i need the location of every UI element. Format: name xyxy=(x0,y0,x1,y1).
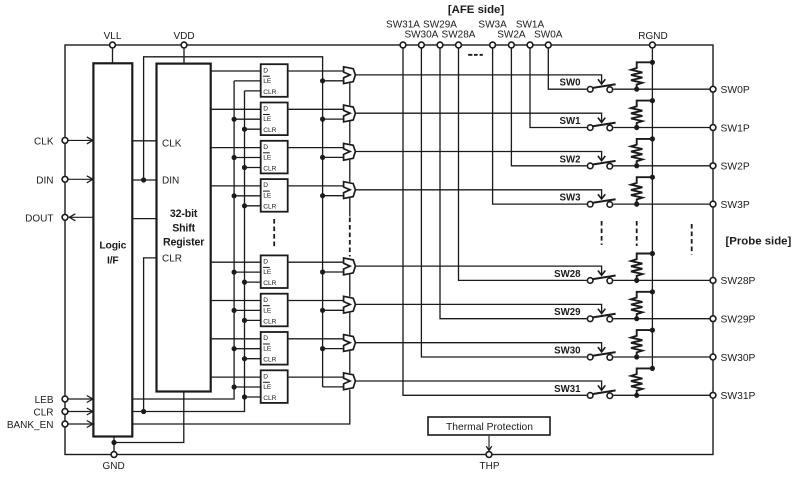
svg-text:SW28A: SW28A xyxy=(442,30,476,41)
resistor SW29 termination xyxy=(631,292,652,319)
svg-text:SW3: SW3 xyxy=(560,193,582,204)
svg-text:VDD: VDD xyxy=(173,31,194,42)
pin SW0P xyxy=(710,85,750,96)
pin VLL xyxy=(104,31,122,48)
junction DIN branch xyxy=(141,177,146,182)
wire latch SW2 output to level shifter xyxy=(289,147,344,149)
wire Shift Register data out to Logic I/F (DOUT) xyxy=(132,218,156,220)
pin SW28A xyxy=(442,30,476,48)
pin THP xyxy=(480,452,500,472)
pin RGND xyxy=(638,31,667,48)
wire shift register output to latch SW1 D input xyxy=(211,108,261,110)
svg-text:D: D xyxy=(263,373,268,380)
wire SW2A pin drop to switch xyxy=(511,48,586,166)
junction resistor bottom SW1 xyxy=(634,125,639,130)
svg-text:LE: LE xyxy=(263,307,272,314)
wire shift register output to latch SW3 D input xyxy=(211,185,261,187)
wire level-shifter chain SW3 to SW28 (continuation) xyxy=(349,198,351,257)
wire latch SW28 output to level shifter xyxy=(289,261,344,263)
junction resistor bottom SW0 xyxy=(634,87,639,92)
pin BANK_EN xyxy=(7,420,68,431)
wire LE bus to latch SW29 xyxy=(232,308,261,313)
junction resistor SW30 to RGND rail xyxy=(650,328,655,333)
svg-text:DIN: DIN xyxy=(162,176,179,187)
svg-text:LEB: LEB xyxy=(35,395,54,406)
wire CLR bus to latch SW1 xyxy=(242,127,261,132)
junction resistor SW2 to RGND rail xyxy=(650,136,655,141)
wire CLR bus to latch SW28 xyxy=(242,280,261,285)
resistor SW2 termination xyxy=(631,139,652,166)
svg-text:DIN: DIN xyxy=(36,176,53,187)
wire enable bus to level shifter SW2 xyxy=(320,155,344,160)
svg-text:Shift: Shift xyxy=(172,223,195,235)
resistor SW3 termination xyxy=(631,177,652,204)
wire control SW30 to switch with arrow xyxy=(355,343,605,352)
wire switch SW1 to SW1P pin xyxy=(613,127,713,129)
resistor SW30 termination xyxy=(631,330,652,357)
junction resistor bottom SW3 xyxy=(634,202,639,207)
wire level-shifter chain SW30 to SW31 xyxy=(349,351,351,373)
pin SW3A xyxy=(478,20,507,48)
junction resistor bottom SW29 xyxy=(634,316,639,321)
svg-text:SW30A: SW30A xyxy=(404,30,438,41)
wire CLR bus to latch SW0 xyxy=(245,90,261,92)
svg-text:CLR: CLR xyxy=(263,395,276,402)
bus level-shifter enable vertical xyxy=(322,81,324,387)
svg-text:CLR: CLR xyxy=(263,357,276,364)
wire CLR bus to latch SW3 xyxy=(242,203,261,208)
svg-text:SW0P: SW0P xyxy=(721,85,750,96)
svg-text:SW30P: SW30P xyxy=(721,353,756,364)
pin SW3P xyxy=(710,200,750,211)
latch D/LE/CLR for SW29 xyxy=(261,294,288,327)
chip package boundary xyxy=(65,45,713,455)
pin SW2P xyxy=(710,162,750,173)
pin SW29P xyxy=(710,315,755,326)
wire CLK pin to Logic I/F with arrow xyxy=(68,137,93,144)
svg-text:D: D xyxy=(263,67,268,74)
svg-text:CLR: CLR xyxy=(263,280,276,287)
svg-text:CLR: CLR xyxy=(263,127,276,134)
svg-text:BANK_EN: BANK_EN xyxy=(7,420,54,431)
wire enable bus to level shifter SW31 xyxy=(323,386,344,388)
wire LEB pin to Logic I/F with arrow xyxy=(68,396,93,403)
svg-text:CLR: CLR xyxy=(263,204,276,211)
svg-text:I/F: I/F xyxy=(107,255,119,266)
svg-text:THP: THP xyxy=(480,461,500,472)
svg-text:LE: LE xyxy=(263,78,272,85)
ellipsis between SW28A and SW3A pins xyxy=(468,54,483,56)
svg-text:[Probe side]: [Probe side] xyxy=(725,235,791,247)
wire enable bus to level shifter SW3 xyxy=(320,193,344,198)
wire level-shifter chain SW0 to SW1 xyxy=(349,83,351,105)
wire LE bus to latch SW2 xyxy=(232,155,261,160)
svg-text:Register: Register xyxy=(163,237,204,249)
wire enable bus to level shifter SW28 xyxy=(320,269,344,274)
level shifter SW28 xyxy=(344,258,356,275)
wire switch SW31 to SW31P pin xyxy=(613,394,713,396)
switch SW30 xyxy=(587,352,615,360)
svg-text:LE: LE xyxy=(263,116,272,123)
wire control SW0 to switch with arrow xyxy=(355,75,605,84)
wire LE bus to latch SW1 xyxy=(232,117,261,122)
svg-text:LE: LE xyxy=(263,193,272,200)
resistor SW28 termination xyxy=(631,254,652,281)
pin SW1P xyxy=(710,123,750,134)
svg-text:SW31: SW31 xyxy=(554,384,581,395)
level shifter SW3 xyxy=(344,182,356,199)
wire SW29A pin drop to switch xyxy=(440,48,587,319)
level shifter SW2 xyxy=(344,143,356,160)
wire DIN pin to Logic I/F with arrow xyxy=(68,176,93,183)
svg-text:DOUT: DOUT xyxy=(25,214,53,225)
wire control SW28 to switch with arrow xyxy=(355,266,605,275)
junction resistor bottom SW31 xyxy=(634,393,639,398)
wire switch SW2 to SW2P pin xyxy=(613,165,713,167)
latch D/LE/CLR for SW0 xyxy=(261,64,288,97)
junction resistor SW0 to RGND rail xyxy=(650,60,655,65)
wire control SW31 to switch with arrow xyxy=(355,381,605,390)
wire shift register output to latch SW0 D input xyxy=(211,70,261,72)
svg-text:D: D xyxy=(263,144,268,151)
wire LE bus to latch SW3 xyxy=(232,193,261,198)
svg-text:D: D xyxy=(263,297,268,304)
svg-text:SW0A: SW0A xyxy=(534,30,563,41)
pin DOUT xyxy=(25,214,68,225)
svg-text:CLK: CLK xyxy=(34,137,54,148)
svg-text:SW28P: SW28P xyxy=(721,276,756,287)
wire DIN Logic I/F to Shift Register xyxy=(132,179,156,181)
continuation dashes switch control column xyxy=(601,221,603,245)
wire CLR bus to latch SW29 xyxy=(242,318,261,323)
wire CLR line to latch CLR bus xyxy=(132,91,244,412)
wire level-shifter chain SW29 to SW30 xyxy=(349,313,351,335)
svg-text:CLR: CLR xyxy=(33,408,53,419)
wire CLK Logic I/F to Shift Register xyxy=(132,140,156,142)
latch D/LE/CLR for SW28 xyxy=(261,255,288,288)
wire latch SW30 output to level shifter xyxy=(289,338,344,340)
wire level-shifter chain SW2 to SW3 xyxy=(349,160,351,182)
svg-text:SW1: SW1 xyxy=(560,116,582,127)
junction resistor SW3 to RGND rail xyxy=(650,175,655,180)
resistor SW0 termination xyxy=(631,62,652,89)
svg-text:SW3P: SW3P xyxy=(721,200,750,211)
latch D/LE/CLR for SW30 xyxy=(261,332,288,365)
svg-text:SW31A: SW31A xyxy=(386,20,420,31)
switch SW0 xyxy=(587,84,615,92)
wire latch SW31 output to level shifter xyxy=(289,376,344,378)
wire CLR bus to latch SW30 xyxy=(242,356,261,361)
wire level-shifter chain SW28 to SW29 xyxy=(349,274,351,296)
level shifter SW30 xyxy=(344,335,356,352)
wire latch SW3 output to level shifter xyxy=(289,185,344,187)
wire SW3A pin drop to switch xyxy=(493,48,587,204)
svg-text:LE: LE xyxy=(263,269,272,276)
wire switch SW29 to SW29P pin xyxy=(613,318,713,320)
wire LE bus to latch SW30 xyxy=(232,346,261,351)
switch SW31 xyxy=(587,390,615,398)
wire GND branch to Shift Register bottom xyxy=(114,392,184,443)
switch SW1 xyxy=(587,123,615,131)
wire enable bus to level shifter SW0 xyxy=(320,78,344,83)
svg-text:LE: LE xyxy=(263,384,272,391)
switch SW29 xyxy=(587,314,615,322)
wire control SW3 to switch with arrow xyxy=(355,190,605,199)
wire VDD pin to Shift Register block xyxy=(183,49,185,64)
pin CLR xyxy=(33,408,67,419)
wire enable bus to level shifter SW1 xyxy=(320,117,344,122)
level shifter SW29 xyxy=(344,296,356,313)
pin SW31P xyxy=(710,391,755,402)
svg-text:GND: GND xyxy=(102,461,124,472)
pin SW30A xyxy=(404,30,438,48)
svg-text:CLR: CLR xyxy=(263,89,276,96)
wire BANK_EN line to level-shifter chain xyxy=(132,390,349,424)
pin GND xyxy=(102,452,124,472)
resistor SW31 termination xyxy=(631,368,652,395)
svg-text:D: D xyxy=(263,182,268,189)
svg-text:SW29P: SW29P xyxy=(721,315,756,326)
switch SW28 xyxy=(587,276,615,284)
svg-text:Logic: Logic xyxy=(99,241,126,252)
wire switch SW0 to SW0P pin xyxy=(613,88,713,90)
wire LE bus to latch SW31 xyxy=(232,384,261,389)
wire LE bus to latch SW28 xyxy=(232,270,261,275)
svg-text:RGND: RGND xyxy=(638,31,667,42)
wire CLR pin to Logic I/F with arrow xyxy=(68,408,93,415)
level shifter SW31 xyxy=(344,373,356,390)
wire latch SW1 output to level shifter xyxy=(289,108,344,110)
pin SW28P xyxy=(710,276,755,287)
svg-text:SW28: SW28 xyxy=(554,269,581,280)
wire control SW1 to switch with arrow xyxy=(355,113,605,122)
junction resistor SW31 to RGND rail xyxy=(650,366,655,371)
junction resistor SW28 to RGND rail xyxy=(650,251,655,256)
junction resistor bottom SW30 xyxy=(634,354,639,359)
wire enable bus to level shifter SW30 xyxy=(320,346,344,351)
svg-text:CLR: CLR xyxy=(162,254,182,265)
svg-text:32-bit: 32-bit xyxy=(170,208,198,220)
block Thermal Protection xyxy=(428,417,550,435)
wire enable bus to level shifter SW29 xyxy=(320,308,344,313)
wire level-shifter chain SW1 to SW2 xyxy=(349,121,351,143)
svg-text:D: D xyxy=(263,335,268,342)
svg-text:SW29: SW29 xyxy=(554,307,581,318)
wire shift register output to latch SW28 D input xyxy=(211,261,261,263)
junction GND branch xyxy=(111,440,116,445)
wire DIN branch up and across to level-shifter bus xyxy=(144,57,323,180)
switch SW2 xyxy=(587,161,615,169)
pin SW1A xyxy=(516,20,545,48)
pin SW0A xyxy=(534,30,563,48)
wire CLR to Shift Register CLR input xyxy=(141,258,157,414)
wire CLR bus to latch SW2 xyxy=(242,165,261,170)
pin VDD xyxy=(173,31,194,48)
wire shift register output to latch SW30 D input xyxy=(211,338,261,340)
pin CLK xyxy=(34,137,68,148)
wire latch SW29 output to level shifter xyxy=(289,300,344,302)
wire SW0A pin drop to switch xyxy=(548,48,586,89)
svg-text:SW1P: SW1P xyxy=(721,123,750,134)
continuation dashes probe-side column xyxy=(691,224,693,255)
wire switch SW30 to SW30P pin xyxy=(613,356,713,358)
wire Logic I/F to GND pin xyxy=(113,437,115,455)
svg-text:SW2A: SW2A xyxy=(497,30,526,41)
svg-text:SW2P: SW2P xyxy=(721,162,750,173)
svg-text:[AFE side]: [AFE side] xyxy=(448,4,505,16)
svg-text:SW2: SW2 xyxy=(560,154,581,165)
junction resistor SW29 to RGND rail xyxy=(650,289,655,294)
wire switch SW28 to SW28P pin xyxy=(613,279,713,281)
pin LEB xyxy=(35,395,68,406)
wire LE bus to latch SW0 xyxy=(234,80,261,82)
wire SW1A pin drop to switch xyxy=(530,48,587,127)
pin SW31A xyxy=(386,20,420,48)
svg-text:LE: LE xyxy=(263,346,272,353)
svg-text:VLL: VLL xyxy=(104,31,122,42)
svg-text:D: D xyxy=(263,106,268,113)
block Logic I/F xyxy=(93,63,132,436)
pin SW30P xyxy=(710,353,755,364)
svg-text:CLR: CLR xyxy=(263,165,276,172)
wire control SW29 to switch with arrow xyxy=(355,304,605,313)
svg-text:Thermal Protection: Thermal Protection xyxy=(446,422,533,433)
wire shift register output to latch SW2 D input xyxy=(211,147,261,149)
continuation dashes latch column xyxy=(273,219,275,248)
junction resistor SW1 to RGND rail xyxy=(650,98,655,103)
block 32-bit Shift Register xyxy=(157,64,211,392)
resistor SW1 termination xyxy=(631,101,652,128)
svg-text:SW3A: SW3A xyxy=(478,20,507,31)
latch D/LE/CLR for SW2 xyxy=(261,141,288,174)
svg-text:SW31P: SW31P xyxy=(721,391,756,402)
wire shift register output to latch SW31 D input xyxy=(211,376,261,378)
latch D/LE/CLR for SW31 xyxy=(261,370,288,403)
switch SW3 xyxy=(587,199,615,207)
pin DIN xyxy=(36,176,68,187)
svg-text:CLR: CLR xyxy=(263,318,276,325)
junction resistor bottom SW28 xyxy=(634,278,639,283)
junction resistor bottom SW2 xyxy=(634,163,639,168)
wire latch SW0 output to level shifter xyxy=(289,70,344,72)
svg-text:D: D xyxy=(263,259,268,266)
pin SW29A xyxy=(423,20,457,48)
level shifter SW1 xyxy=(344,105,356,122)
svg-text:SW0: SW0 xyxy=(560,78,581,89)
wire CLR bus to latch SW31 xyxy=(242,394,261,399)
latch D/LE/CLR for SW1 xyxy=(261,103,288,136)
wire switch SW3 to SW3P pin xyxy=(613,203,713,205)
wire SW31A pin drop to switch xyxy=(403,48,587,395)
wire SW30A pin drop to switch xyxy=(421,48,586,357)
pin SW2A xyxy=(497,30,526,48)
continuation dashes resistor column xyxy=(636,221,638,246)
svg-text:CLK: CLK xyxy=(162,139,182,150)
wire shift register output to latch SW29 D input xyxy=(211,300,261,302)
wire Logic I/F to DOUT pin with arrow xyxy=(69,214,93,221)
latch D/LE/CLR for SW3 xyxy=(261,179,288,212)
svg-text:LE: LE xyxy=(263,154,272,161)
level shifter SW0 xyxy=(344,67,356,84)
bus RGND internal rail xyxy=(651,49,653,369)
wire SW28A pin drop to switch xyxy=(459,48,587,280)
wire BANK_EN pin to Logic I/F with arrow xyxy=(68,421,93,428)
wire control SW2 to switch with arrow xyxy=(355,152,605,161)
wire LEB line to latch LE bus xyxy=(132,81,234,399)
wire Thermal Protection to THP pin with arrow xyxy=(486,436,491,451)
svg-text:SW30: SW30 xyxy=(554,346,580,357)
wire VLL pin to Logic I/F block xyxy=(112,49,114,64)
